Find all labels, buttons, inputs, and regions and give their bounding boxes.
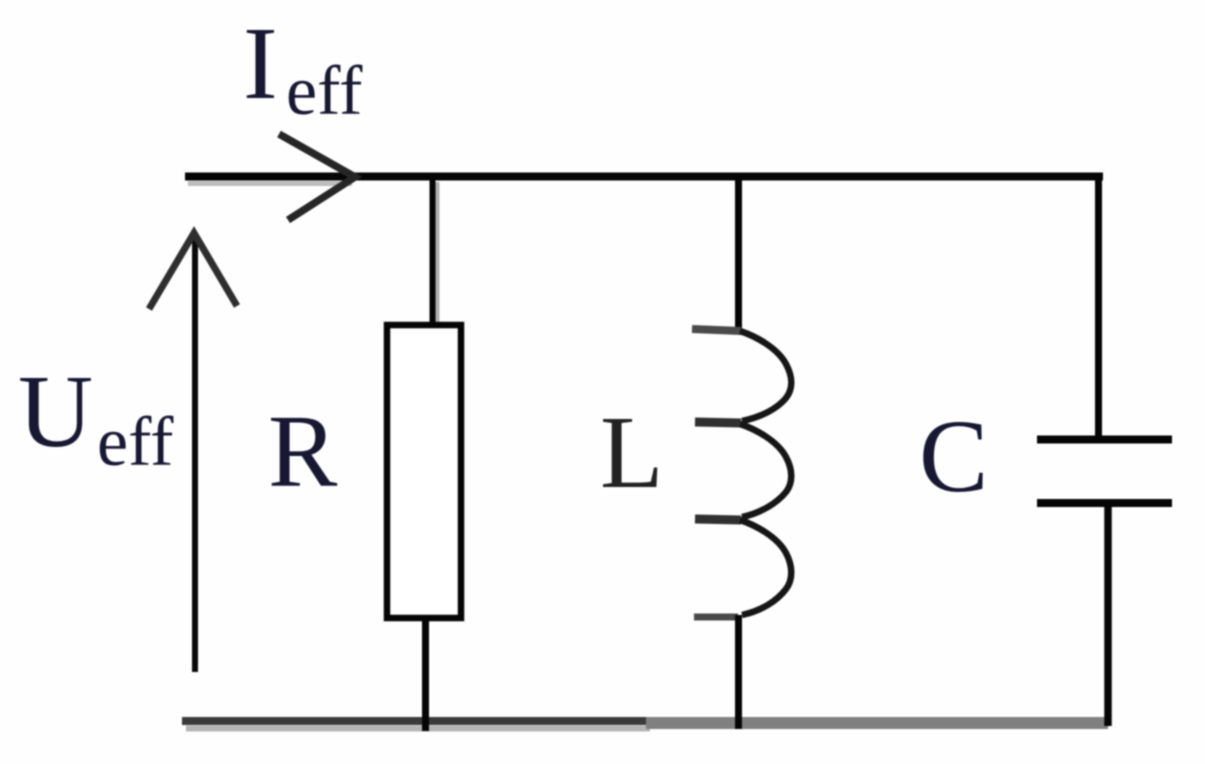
label I_eff bbox=[243, 6, 363, 130]
wire: bottom bus right segment (inductor node to capacitor) bbox=[646, 717, 1108, 729]
svg-text:L: L bbox=[600, 395, 664, 510]
svg-text:I: I bbox=[243, 6, 278, 121]
svg-text:C: C bbox=[919, 399, 988, 514]
svg-text:U: U bbox=[18, 354, 93, 469]
capacitor C branch: top lead wire bbox=[1095, 180, 1102, 439]
label R bbox=[268, 394, 338, 509]
label U_eff bbox=[18, 354, 174, 481]
svg-text:eff: eff bbox=[286, 53, 363, 130]
current arrow I_eff on top wire bbox=[279, 134, 355, 220]
inductor L coil (three loops with junction stubs) bbox=[692, 329, 791, 617]
resistor R body bbox=[387, 325, 461, 618]
svg-text:eff: eff bbox=[97, 404, 174, 481]
resistor R bottom lead wire bbox=[422, 618, 429, 731]
label L bbox=[600, 395, 664, 510]
wire: top bus from source node to capacitor branch bbox=[185, 177, 1103, 184]
svg-text:R: R bbox=[268, 394, 338, 509]
label C bbox=[919, 399, 988, 514]
capacitor C bottom lead wire bbox=[1104, 503, 1112, 726]
capacitor C bottom plate bbox=[1037, 499, 1172, 507]
capacitor C top plate bbox=[1037, 436, 1172, 444]
inductor L bottom lead wire bbox=[735, 615, 742, 729]
resistor R branch: top lead wire bbox=[433, 180, 438, 325]
inductor L branch: top lead wire bbox=[735, 180, 742, 331]
voltage arrow U_eff (source side) bbox=[149, 233, 237, 672]
wire: bottom bus left segment (source to inductor node) bbox=[182, 721, 650, 729]
